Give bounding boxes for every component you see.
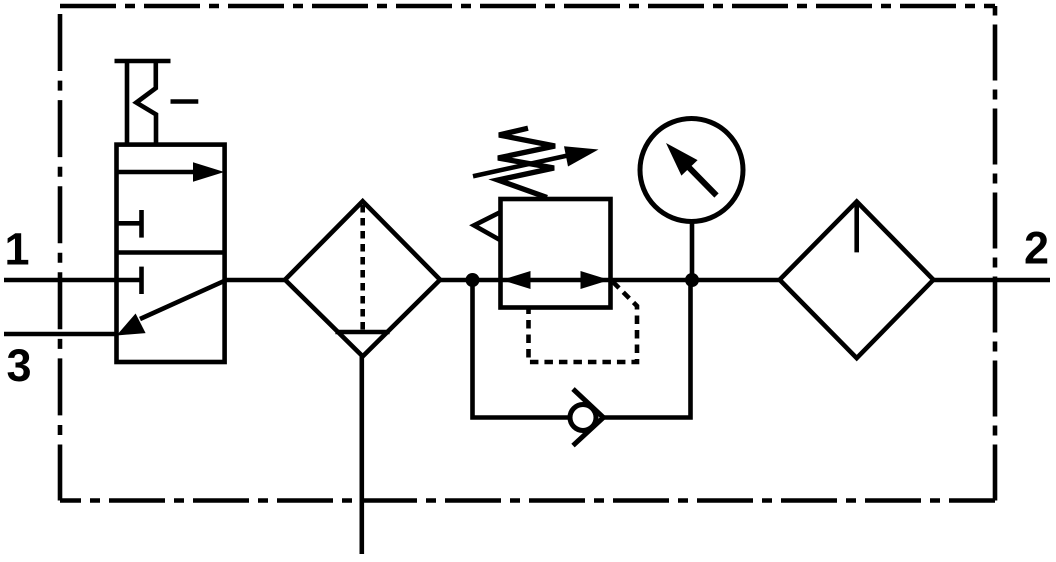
pressure gauge: [640, 119, 743, 281]
junction node (filter outlet / bypass tap): [466, 273, 480, 287]
valve blocked port (open position): [117, 210, 142, 238]
svg-text:2: 2: [1024, 223, 1049, 274]
svg-text:1: 1: [5, 224, 30, 275]
valve flow path arrow (open position): [117, 162, 225, 181]
filter with water separator: [285, 201, 440, 356]
3/2-way shut-off valve body: [117, 145, 225, 362]
valve exhaust arrow 2-3 (closed position): [117, 281, 224, 335]
lubricator: [780, 202, 934, 359]
wire: bypass left drop: [473, 280, 584, 418]
regulator setting spring: [498, 128, 555, 197]
valve manual detent actuator: [115, 61, 199, 146]
wire: port 3 exhaust line: [4, 332, 117, 337]
regulator relief vent triangle: [474, 212, 500, 240]
regulator adjustment arrow: [473, 146, 599, 176]
pilot line (dashed) regulator feedback: [529, 282, 638, 362]
wire: condensate drain line: [359, 354, 364, 554]
wire: regulator to lubricator: [611, 278, 781, 283]
wire: filter to regulator: [440, 278, 502, 283]
wire: valve outlet to filter: [225, 278, 286, 283]
wire: port 1 supply line: [4, 278, 117, 283]
check valve: [570, 389, 603, 446]
wire: port 2 outlet line: [933, 278, 1050, 283]
wire: bypass right riser: [603, 280, 690, 418]
enclosure boundary (dash-dot frame): [60, 6, 995, 501]
junction node (gauge tap): [685, 273, 699, 287]
pressure regulator body: [501, 199, 611, 308]
svg-text:3: 3: [7, 340, 32, 391]
valve blocked port 1 (closed position): [117, 267, 142, 294]
